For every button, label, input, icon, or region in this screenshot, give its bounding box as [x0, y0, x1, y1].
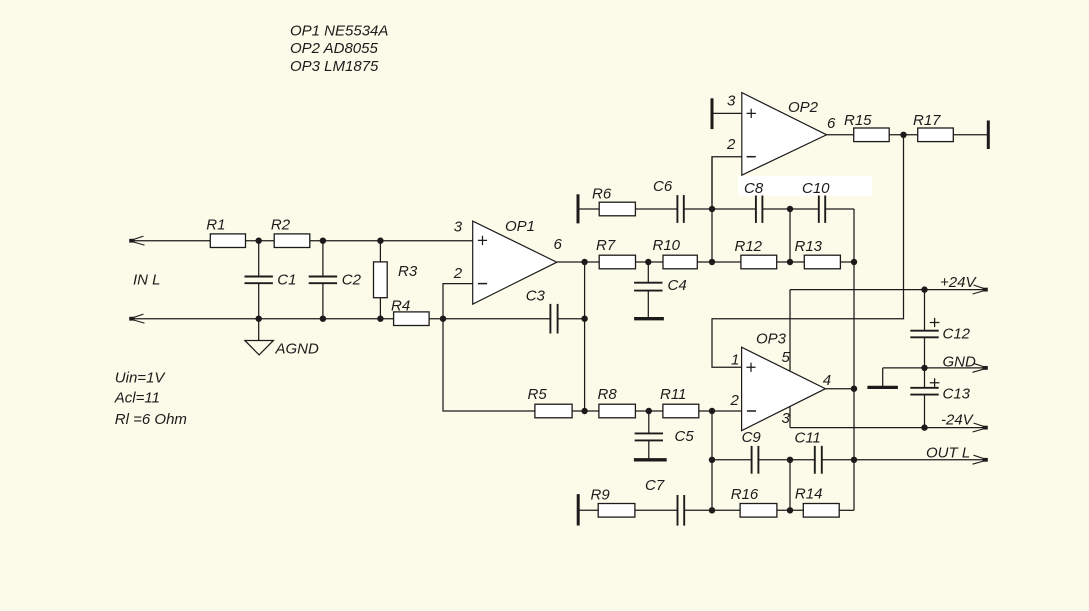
ground bar under C5 [634, 458, 667, 461]
svg-text:R14: R14 [795, 485, 823, 502]
svg-text:R7: R7 [596, 237, 616, 254]
svg-text:C6: C6 [653, 178, 673, 195]
svg-text:OP3 LM1875: OP3 LM1875 [290, 58, 379, 75]
svg-text:Acl=11: Acl=11 [114, 390, 160, 407]
wire: OP1 pin2 feedback drop [443, 284, 535, 411]
svg-text:R15: R15 [844, 112, 872, 129]
resistor R6 [599, 202, 635, 216]
node: R2/C2 junction [320, 238, 326, 244]
svg-text:+24V: +24V [940, 274, 977, 291]
node: OP3 output junction [851, 386, 857, 392]
input arrow top (IN L) [131, 236, 144, 240]
svg-text:R5: R5 [528, 386, 548, 403]
wire: R7-R10 [636, 261, 664, 263]
svg-text:R4: R4 [391, 298, 410, 315]
svg-text:2: 2 [453, 265, 463, 282]
wire: OUT L left segment [712, 459, 752, 461]
capacitor C12 [910, 330, 938, 332]
plus mark C13 [930, 378, 940, 387]
svg-text:C5: C5 [675, 428, 695, 445]
capacitor C4 leads [647, 262, 649, 319]
svg-text:C2: C2 [342, 271, 362, 288]
svg-text:R10: R10 [653, 237, 681, 254]
terminal bar at R9 [577, 494, 580, 525]
wire: OP3 pin3 drop [789, 407, 791, 428]
svg-text:Rl =6 Ohm: Rl =6 Ohm [115, 411, 187, 428]
resistor R9 [598, 504, 635, 518]
wire: R15-R17 [889, 134, 918, 136]
wire: C9-C11 [758, 459, 814, 461]
svg-text:2: 2 [726, 136, 736, 153]
node: OP1 output junction [581, 259, 587, 265]
svg-text:C7: C7 [645, 477, 665, 494]
svg-text:4: 4 [823, 372, 831, 389]
wire: vertical C6/C8 node to R10/R12 node [711, 157, 713, 262]
resistor R10 [663, 255, 697, 269]
svg-text:3: 3 [727, 93, 736, 110]
svg-text:C9: C9 [742, 429, 762, 446]
wire: OP2 output [827, 134, 854, 136]
wire: GND rail [883, 367, 986, 369]
svg-text:R6: R6 [592, 185, 612, 202]
node: R4/C3/pin2 junction [440, 316, 446, 322]
arrow OUT L [974, 455, 987, 459]
resistor R12 [741, 255, 777, 269]
svg-text:C12: C12 [943, 325, 971, 342]
svg-text:Uin=1V: Uin=1V [115, 369, 167, 386]
node: R3 top junction [377, 238, 383, 244]
capacitor C8 [755, 195, 757, 223]
resistor R17 [918, 128, 954, 142]
op-amp U1 (OP1) body [473, 221, 557, 304]
capacitor C1 leads [258, 241, 260, 319]
resistor R4 [394, 312, 430, 326]
wire: R9-C7 [635, 509, 678, 511]
capacitor C5 [635, 432, 663, 434]
svg-text:OUT L: OUT L [926, 444, 970, 461]
svg-text:3: 3 [454, 218, 463, 235]
resistor R5 [535, 404, 572, 418]
capacitor C10 [818, 195, 820, 223]
wire: OP3 output [825, 388, 854, 390]
capacitor C13 leads [924, 368, 926, 428]
wire: bar-R6 [578, 208, 599, 210]
wire: +24V rail [790, 289, 986, 291]
capacitor C9 [751, 446, 753, 474]
AGND lead [258, 319, 260, 341]
wire: R16-R14 [777, 509, 803, 511]
svg-text:C1: C1 [277, 271, 296, 288]
wire: R15/R17 node to OP3 pin1 [712, 135, 904, 367]
svg-text:C4: C4 [668, 277, 687, 294]
resistor R3 leads [379, 241, 381, 319]
capacitor C12 leads [924, 290, 926, 368]
op-amp OP3 plus sign [746, 363, 755, 372]
svg-text:C10: C10 [802, 180, 830, 197]
svg-text:OP3: OP3 [756, 330, 787, 347]
capacitor C6 [676, 195, 678, 223]
node: C11/vertical junction [851, 457, 857, 463]
resistor R15 [854, 128, 890, 142]
svg-text:OP1: OP1 [505, 218, 535, 235]
resistor R2 [274, 234, 310, 248]
svg-text:GND: GND [943, 354, 977, 371]
node: C8/C10 junction [787, 206, 793, 212]
svg-text:C11: C11 [795, 430, 821, 447]
wire: R8-R11 [635, 410, 663, 412]
arrow GND [974, 363, 987, 367]
svg-text:OP2: OP2 [788, 99, 819, 116]
wire: R12-R13 [777, 261, 805, 263]
wire: C6-C8 [684, 208, 756, 210]
node: R11/pin2 junction [709, 408, 715, 414]
svg-text:5: 5 [782, 349, 791, 366]
node: C1 bottom junction [256, 316, 262, 322]
wire: R6-C6 [635, 208, 677, 210]
capacitor C11 [814, 446, 816, 474]
wire: OP1 output vertical [584, 262, 586, 411]
svg-text:C3: C3 [526, 287, 546, 304]
node: C7/R16 junction [709, 507, 715, 513]
wire: GND drop to bar [882, 368, 884, 386]
arrow -24V [974, 423, 987, 427]
svg-text:C13: C13 [943, 385, 971, 402]
terminal bar at R6 [577, 194, 580, 223]
resistor R13 [804, 255, 840, 269]
svg-text:2: 2 [730, 392, 740, 409]
node: R13 right junction [851, 259, 857, 265]
svg-text:R1: R1 [206, 217, 225, 234]
ground bar at GND [867, 386, 898, 389]
svg-text:R2: R2 [271, 217, 291, 234]
wire: bar-R9 [578, 509, 598, 511]
resistor R14 [803, 504, 839, 518]
terminal bar after R17 [987, 121, 990, 150]
wire: -24V rail [790, 427, 986, 429]
svg-text:R17: R17 [913, 112, 941, 129]
svg-text:6: 6 [554, 236, 563, 253]
svg-text:IN L: IN L [133, 272, 161, 289]
wire: OP2 pin3 [712, 112, 742, 114]
op-amp U3 (OP3) body [742, 347, 826, 431]
node: R5/R8 junction [581, 408, 587, 414]
wire: long vertical C10 to R14 [853, 209, 855, 510]
ground bar under C4 [634, 317, 664, 320]
capacitor C3 [549, 304, 551, 334]
wire: R11 to OP3 pin2 [699, 410, 742, 412]
AGND symbol [245, 341, 274, 355]
node: +24V/C12 junction [921, 286, 927, 292]
op-amp OP1 minus sign [478, 283, 487, 285]
capacitor C2 leads [322, 241, 324, 319]
label background patch [738, 176, 872, 196]
wire: R17 to bar [953, 134, 988, 136]
resistor R16 [740, 504, 777, 518]
svg-text:3: 3 [782, 410, 791, 427]
node: R3 bottom junction [377, 316, 383, 322]
svg-text:OP1 NE5534A: OP1 NE5534A [290, 22, 388, 39]
capacitor C4 [634, 282, 662, 284]
svg-text:R16: R16 [731, 486, 759, 503]
wire: left input top rail [130, 240, 473, 242]
resistor R11 [663, 404, 699, 418]
svg-text:R8: R8 [598, 386, 618, 403]
node: R15/R17 junction [900, 132, 906, 138]
wire: C8-C10 [762, 208, 818, 210]
node: -24V/C13 junction [921, 424, 927, 430]
svg-text:1: 1 [731, 352, 739, 369]
input arrow bottom (IN L) [131, 314, 144, 318]
node: R16/R14 junction [787, 507, 793, 513]
wire: C3 right segment [558, 318, 585, 320]
svg-text:AGND: AGND [275, 341, 320, 358]
node: R12/R13 junction [787, 259, 793, 265]
node: C3/vertical junction [581, 316, 587, 322]
svg-text:R13: R13 [795, 238, 823, 255]
svg-text:R3: R3 [398, 263, 418, 280]
wire: vertical C9/C11 node to R16/R14 node [789, 460, 791, 511]
wire: R10-R12 [697, 261, 741, 263]
op-amp OP2 plus sign [747, 109, 756, 118]
wire: left input bottom rail [130, 318, 551, 320]
svg-text:C8: C8 [744, 180, 764, 197]
node: C6/C8 junction [709, 206, 715, 212]
capacitor C7 [677, 495, 679, 526]
op-amp OP2 minus sign [747, 156, 756, 158]
wire: OP2 pin2 drop [712, 157, 742, 209]
plus mark C12 [930, 318, 940, 327]
resistor R7 [599, 255, 635, 269]
resistor R3 [374, 262, 388, 298]
node: C9 left junction [709, 457, 715, 463]
wire: vertical C8/C10 node to R12/R13 node [789, 209, 791, 262]
node: C9/C11 junction [787, 457, 793, 463]
svg-text:R12: R12 [735, 238, 763, 255]
wire: R13 to vertical [840, 261, 854, 263]
capacitor C13 [910, 387, 938, 389]
resistor R8 [599, 404, 636, 418]
wire: C11 to OUT L arrow [822, 459, 986, 461]
wire: C10 to corner [825, 208, 854, 210]
svg-text:R9: R9 [591, 486, 611, 503]
svg-text:OP2 AD8055: OP2 AD8055 [290, 40, 378, 57]
capacitor C1 [245, 276, 273, 278]
capacitor C2 [309, 276, 337, 278]
node: R8/R11/C5 junction [646, 408, 652, 414]
svg-text:R11: R11 [660, 386, 686, 403]
wire: +24V corner to OP3 pin5 [789, 290, 791, 371]
wire: OP1 output [557, 261, 599, 263]
op-amp U2 (OP2) body [742, 93, 827, 176]
node: R10/R12 junction [709, 259, 715, 265]
svg-text:-24V: -24V [941, 411, 975, 428]
arrow +24V [974, 285, 987, 289]
op-amp OP1 plus sign [478, 236, 487, 245]
wire: vertical R11 node to R16 row [711, 411, 713, 510]
node: C2 bottom junction [320, 316, 326, 322]
terminal bar at OP2 pin3 [711, 98, 714, 129]
wire: R14 to vertical [839, 509, 854, 511]
capacitor C5 leads [648, 411, 650, 460]
op-amp OP3 minus sign [747, 410, 756, 412]
node: GND/C12/C13 junction [921, 365, 927, 371]
wire: R5-R8 [572, 410, 599, 412]
resistor R1 [210, 234, 245, 248]
svg-text:6: 6 [827, 115, 836, 132]
wire: C7-R16 [684, 509, 740, 511]
node: R1-R2/C1 junction [256, 238, 262, 244]
node: R7/R10/C4 junction [645, 259, 651, 265]
